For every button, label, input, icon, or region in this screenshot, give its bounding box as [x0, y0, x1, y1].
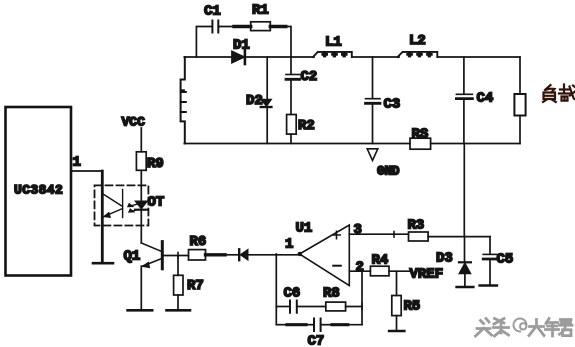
- svg-text:D3: D3: [436, 251, 453, 267]
- diode D4 (base drive): [239, 249, 299, 260]
- svg-text:R9: R9: [147, 156, 164, 172]
- svg-text:UC3842: UC3842: [14, 183, 63, 198]
- svg-text:R4: R4: [372, 253, 389, 269]
- resistor RS (in bottom rail): [184, 138, 520, 149]
- svg-text:VREF: VREF: [410, 267, 444, 283]
- capacitor C2: [286, 75, 300, 115]
- wire: pin2 to R4: [349, 270, 370, 272]
- capacitor C5: [480, 237, 497, 286]
- watermark 头条@大年君: [474, 317, 571, 335]
- capacitor C1: [212, 21, 218, 33]
- svg-text:D2: D2: [246, 93, 263, 109]
- wire: VCC to R9: [140, 128, 142, 152]
- ground bar under Q1 emitter: [128, 309, 153, 312]
- svg-text:1: 1: [285, 237, 293, 253]
- svg-text:L2: L2: [409, 33, 426, 49]
- optocoupler OT dashed box: [95, 185, 149, 225]
- svg-text:C7: C7: [308, 334, 325, 347]
- svg-text:C1: C1: [204, 4, 221, 20]
- resistor R9: [136, 152, 146, 201]
- inductor L1: [313, 52, 352, 57]
- junction node base/R7: [177, 253, 179, 259]
- resistor R3: [409, 232, 491, 241]
- svg-text:1: 1: [73, 155, 81, 171]
- svg-text:L1: L1: [325, 35, 342, 51]
- svg-text:R8: R8: [323, 286, 340, 302]
- svg-text:R1: R1: [252, 3, 269, 19]
- svg-text:R7: R7: [187, 278, 204, 294]
- svg-text:GND: GND: [377, 165, 400, 179]
- resistor R7: [174, 256, 183, 310]
- load resistor: [514, 57, 525, 144]
- diode D1: [232, 50, 291, 64]
- capacitor C4: [456, 57, 472, 144]
- wire: R6 to diode (thick lead): [206, 253, 239, 256]
- svg-text:C6: C6: [284, 286, 301, 302]
- svg-text:C3: C3: [384, 97, 401, 113]
- wire: between L1 and L2: [352, 56, 399, 58]
- ground bar under opto emitter: [93, 262, 113, 265]
- wire: pin2 branch vertical: [361, 271, 363, 325]
- op-amp U1: [298, 225, 350, 286]
- node vertical with C2 and R2: [290, 57, 292, 74]
- svg-text:3: 3: [354, 222, 362, 238]
- svg-text:RS: RS: [412, 127, 429, 143]
- resistor R1: [234, 22, 286, 31]
- transformer winding T1: [181, 57, 186, 144]
- svg-text:U1: U1: [296, 221, 313, 237]
- svg-text:C5: C5: [497, 252, 514, 268]
- resistor R6: [189, 250, 206, 260]
- svg-text:OT: OT: [148, 195, 165, 211]
- opto LED: [135, 201, 148, 243]
- wire: feedback sense vertical from bottom rail: [463, 144, 465, 237]
- ground bar under R5: [389, 330, 404, 332]
- wire: pin1 to opto collector line: [71, 171, 102, 262]
- opto phototransistor: [102, 190, 122, 218]
- resistor R5: [392, 271, 401, 330]
- wire: C1-R1 snubber top loop: [196, 27, 291, 58]
- wire: top output rail: [291, 56, 314, 58]
- ground GND under C3 junction: [367, 149, 378, 161]
- ground bar under R7: [167, 309, 191, 312]
- resistor R8: [326, 302, 362, 311]
- transistor Q1: [141, 242, 162, 310]
- svg-text:R2: R2: [298, 118, 315, 134]
- inductor L2: [398, 52, 438, 57]
- svg-text:D1: D1: [233, 38, 250, 54]
- wire: secondary top edge to D1: [184, 56, 231, 58]
- resistor R2: [287, 115, 297, 144]
- wire: L2 to load top: [438, 56, 520, 58]
- svg-text:R3: R3: [408, 218, 425, 234]
- wire: Q1 base to R6: [164, 255, 189, 257]
- IC U2 UC3842 box: [6, 107, 72, 276]
- diode D2 (freewheel): [261, 57, 272, 144]
- capacitor C3: [366, 57, 381, 144]
- wire: pin3 to R3: [349, 232, 408, 238]
- opto light arrows: [128, 204, 138, 212]
- diode D3: [457, 237, 474, 287]
- label 负载 (load): [543, 85, 575, 103]
- wire: opamp output branch vertical: [275, 254, 277, 325]
- svg-text:C4: C4: [477, 91, 494, 107]
- svg-text:R5: R5: [404, 299, 421, 315]
- wire: compensation row1: [276, 304, 289, 310]
- capacitor C6: [290, 301, 326, 313]
- svg-text:Q1: Q1: [124, 249, 141, 265]
- capacitor C7 row: [276, 319, 362, 332]
- svg-text:C2: C2: [301, 69, 318, 85]
- resistor R4: [370, 266, 410, 276]
- svg-text:R6: R6: [190, 234, 207, 250]
